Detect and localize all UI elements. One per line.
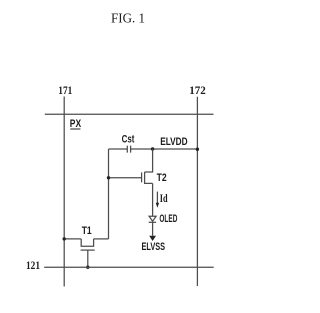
wire T2 drain [145, 149, 153, 172]
svg-text:ELVSS: ELVSS [142, 241, 166, 253]
svg-text:172: 172 [189, 85, 206, 97]
wire storage node vertical [108, 149, 110, 239]
svg-text:PX: PX [70, 118, 82, 130]
node dot gate [107, 176, 110, 179]
arrow ELVSS terminal [149, 236, 156, 241]
wire T1 source [64, 238, 81, 240]
svg-text:Cst: Cst [122, 134, 135, 146]
transistor T1 gate bar [81, 249, 95, 251]
node dot T1-171 [62, 237, 65, 240]
current arrow Id [156, 192, 158, 204]
transistor T2 gate bar [141, 172, 143, 182]
transistor T1 channel [81, 239, 93, 246]
data line 171 [63, 97, 65, 287]
svg-text:121: 121 [26, 260, 40, 272]
wire T2 source to OLED [152, 183, 154, 216]
wire T2 gate [109, 177, 142, 179]
svg-text:Id: Id [160, 193, 168, 205]
data line 172 [196, 97, 198, 286]
wire ELVDD rail [153, 148, 198, 150]
wire top horizontal [45, 113, 214, 115]
wire Cst right [131, 148, 153, 150]
svg-text:171: 171 [58, 85, 72, 97]
node dot gate-121 [86, 266, 89, 269]
scan line 121 [44, 266, 214, 268]
PX underline [70, 128, 80, 130]
svg-text:T1: T1 [82, 225, 92, 237]
wire OLED to ELVSS [152, 222, 154, 235]
diode OLED triangle [149, 216, 156, 221]
svg-text:ELVDD: ELVDD [160, 136, 187, 148]
svg-text:FIG. 1: FIG. 1 [111, 12, 145, 27]
wire Cst left [109, 148, 128, 150]
transistor T2 channel [145, 172, 153, 183]
svg-text:T2: T2 [157, 172, 167, 184]
capacitor Cst [127, 146, 130, 153]
wire T1 gate [87, 250, 89, 267]
svg-text:OLED: OLED [159, 213, 177, 225]
wire T1 drain [94, 238, 109, 240]
node dot ELVDD-Cst [151, 147, 154, 150]
node dot ELVDD-172 [196, 148, 199, 151]
diode OLED cathode bar [149, 221, 156, 223]
